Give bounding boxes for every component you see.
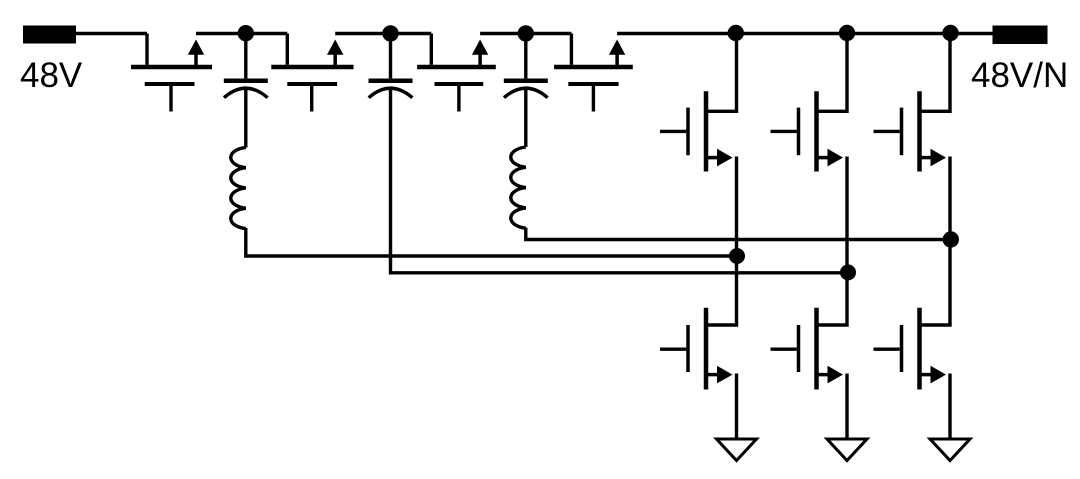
ground 3 [930,439,970,461]
transistor M2 gate [797,108,801,156]
transistor M5 gate [797,325,801,372]
transistor M3 source arrow [920,156,932,160]
wire C2 to node B2 [391,89,848,273]
transistor M6 gate [900,325,904,372]
transistor M4 gate [686,325,690,372]
wire S2 to S3 [335,32,431,35]
ground 1 [717,439,757,461]
transistor M2 channel [814,91,819,171]
switch S3 drain lead [430,34,433,65]
transistor M2 drain lead [817,34,848,112]
switch S3 source arrow [478,53,482,66]
transistor M3 drain lead [920,34,951,112]
switch S1 gate [145,82,195,86]
capacitor C2 [389,40,392,78]
switch S1 channel [131,65,212,70]
wire M2 source to node B2 [845,157,848,273]
capacitor C1 [244,40,247,78]
switch S1 source arrow [194,53,198,66]
wire M6 source to ground [948,374,951,439]
node N6 [942,25,958,41]
transistor M1 gate [686,108,690,156]
wire L1 to node B1 [246,228,737,256]
transistor M3 channel [917,91,922,171]
transistor M6 channel [917,308,922,390]
switch S1 drain lead [145,34,148,65]
transistor M2 source arrow [817,156,829,160]
switch S4 source arrow [615,53,619,66]
transistor M6 source arrow [920,373,932,377]
switch S4 drain lead [570,34,573,65]
node B3 [943,231,959,247]
inductor L1 [231,147,246,228]
transistor M4 drain lead [706,256,737,325]
wire S4 to output terminal [617,32,993,35]
wire input to switch S1 [76,32,147,35]
transistor M3 gate [900,108,904,156]
wire C3 to L2 [524,89,527,147]
node B1 [729,248,745,264]
switch S2 gate [287,82,337,86]
node N4 [728,25,744,41]
transistor M4 source arrow [706,373,718,377]
switch S4 gate [568,82,618,86]
node N3 [518,25,534,41]
transistor M1 channel [704,91,709,171]
output terminal 48V/N [993,26,1048,45]
wire M4 source to ground [735,374,738,439]
ground 2 [827,439,867,461]
wire M3 source to node B3 [948,157,951,240]
transistor M5 drain lead [817,273,848,325]
switch S3 channel [417,65,496,70]
switch S4 channel [554,65,633,70]
node N1 [238,25,254,41]
svg-text:48V: 48V [20,56,83,95]
wire L2 to node B3 [526,228,951,240]
transistor M1 source arrow [706,156,718,160]
input terminal 48V [23,26,76,44]
switch S2 source arrow [333,53,337,66]
switch S3 gate [435,82,484,86]
transistor M4 channel [704,308,709,390]
wire C1 to L1 [244,89,247,148]
wire S1 to S2 [196,32,287,35]
node B2 [840,264,856,280]
inductor L2 [511,147,526,228]
transistor M1 drain lead [706,34,737,112]
svg-text:48V/N: 48V/N [971,56,1068,95]
wire M1 source to node B1 [735,157,738,257]
switch S2 drain lead [286,34,289,65]
transistor M5 channel [814,308,819,390]
transistor M6 drain lead [920,240,951,326]
node N5 [839,25,855,41]
wire S3 to S4 [480,32,571,35]
capacitor C3 [524,40,527,78]
transistor M5 source arrow [817,373,829,377]
switch S2 channel [271,65,353,70]
node N2 [382,25,398,41]
wire M5 source to ground [845,374,848,439]
